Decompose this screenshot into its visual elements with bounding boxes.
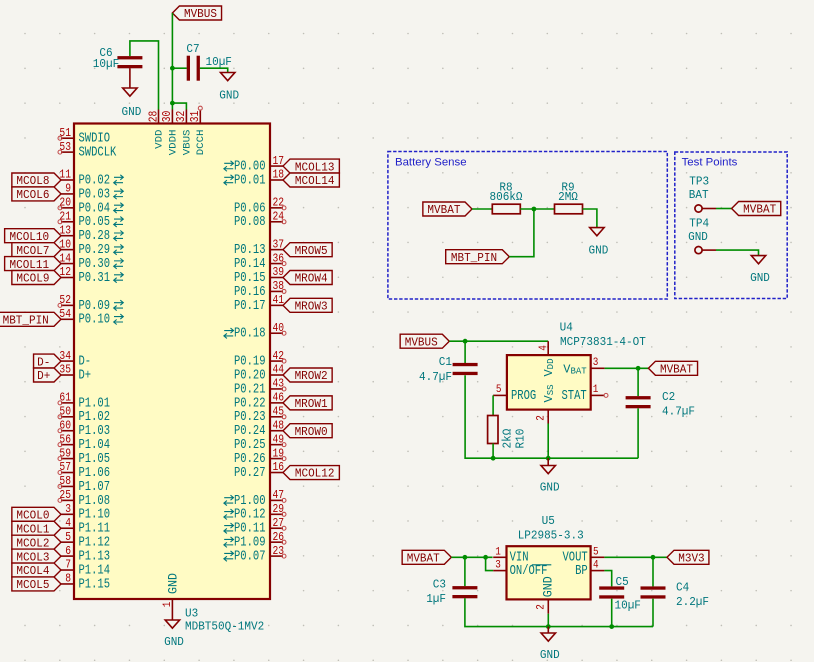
wire VOUT to M3V3 [604, 556, 667, 558]
svg-text:MVBAT: MVBAT [427, 203, 460, 217]
global label MROW0 [283, 424, 332, 439]
svg-text:57: 57 [59, 461, 71, 474]
C5 value 10uF [615, 599, 641, 613]
wire MBT_PIN to divider [509, 209, 534, 257]
junction ON/OFF tap [483, 555, 488, 560]
svg-text:MVBAT: MVBAT [660, 363, 693, 377]
pin 16 P0.27 (right) [234, 461, 284, 481]
pin 5 PROG [493, 384, 536, 404]
C6 reference [99, 46, 112, 60]
svg-text:60: 60 [59, 419, 71, 432]
svg-text:61: 61 [59, 392, 71, 405]
svg-text:MROW1: MROW1 [295, 397, 328, 411]
wire junction to C1 [464, 341, 466, 363]
pin 50 P1.02 (left) [58, 406, 110, 426]
global label MCOL1 [12, 521, 61, 536]
global label MVBAT (test point) [732, 202, 781, 217]
wire junction to C2 [637, 368, 639, 396]
svg-text:Test Points: Test Points [682, 157, 738, 169]
svg-text:GND: GND [589, 244, 609, 258]
pin 34 D- (left) [59, 350, 91, 370]
global label D+ [34, 368, 61, 383]
svg-text:P0.16: P0.16 [234, 285, 266, 300]
Test Points title [682, 157, 738, 169]
svg-text:MCOL2: MCOL2 [16, 536, 49, 550]
global label MROW1 [283, 396, 332, 411]
svg-text:21: 21 [59, 210, 71, 223]
pin 10 P0.29 (left) [59, 238, 123, 258]
svg-text:MCOL1: MCOL1 [16, 522, 49, 536]
pin 20 P0.04 (left) [58, 197, 123, 217]
pin 6 P1.13 (left) [61, 545, 110, 565]
global label MCOL14 [283, 173, 339, 188]
svg-text:1µF: 1µF [426, 592, 446, 606]
wire TP3 to MVBAT [716, 208, 732, 210]
junction C5 at rail [609, 624, 614, 629]
TP3 reference [689, 175, 709, 189]
global label MROW5 [283, 243, 332, 258]
test point TP3 pad [695, 205, 716, 212]
svg-text:MCOL6: MCOL6 [16, 188, 49, 202]
svg-text:4.7µF: 4.7µF [419, 370, 452, 384]
svg-text:P1.03: P1.03 [79, 424, 111, 439]
svg-text:MBT_PIN: MBT_PIN [451, 251, 497, 265]
R9 reference [561, 181, 574, 195]
global label D- [34, 354, 61, 369]
svg-text:P0.19: P0.19 [234, 354, 266, 369]
svg-text:VBUS: VBUS [181, 130, 193, 156]
svg-text:MCOL7: MCOL7 [16, 244, 49, 258]
ground stem (U4) [547, 458, 549, 465]
wire Vss to rail [547, 424, 549, 459]
ground stem (U5) [547, 627, 549, 633]
ground right of C7 [219, 73, 239, 103]
svg-text:P1.13: P1.13 [79, 550, 111, 565]
svg-text:2.2µF: 2.2µF [676, 595, 709, 609]
svg-text:TP3: TP3 [689, 175, 709, 189]
R8 reference [499, 181, 512, 195]
global label MCOL11 [5, 257, 61, 272]
wire GND pin to rail [547, 614, 549, 627]
power label MVBUS (top) [172, 6, 221, 21]
svg-text:SWDCLK: SWDCLK [79, 146, 118, 161]
pin 4 P1.11 (left) [61, 517, 110, 537]
global label MVBUS (charger input) [400, 334, 449, 349]
pin 59 P1.05 (left) [58, 447, 110, 467]
junction C2 tap [636, 366, 641, 371]
pin 37 P0.13 (right) [234, 238, 284, 258]
pin 28 VDD (top) [147, 110, 165, 149]
svg-text:GND: GND [540, 648, 560, 662]
svg-text:PROG: PROG [511, 389, 536, 404]
TP3 value BAT [689, 188, 709, 202]
wire C7 to ground [200, 68, 228, 72]
svg-text:P0.03: P0.03 [79, 187, 111, 202]
svg-text:MVBAT: MVBAT [407, 552, 440, 566]
svg-text:P0.14: P0.14 [234, 257, 266, 272]
svg-text:MVBUS: MVBUS [184, 7, 217, 21]
pin 4 BP [575, 560, 604, 579]
svg-text:51: 51 [59, 127, 71, 140]
svg-text:P0.18: P0.18 [234, 327, 266, 342]
svg-text:P0.11: P0.11 [234, 522, 266, 537]
ground (U5) [540, 633, 560, 662]
svg-text:U5: U5 [542, 514, 555, 528]
pin 3 ON/OFF [493, 560, 551, 579]
svg-text:P0.25: P0.25 [234, 438, 266, 453]
svg-text:MROW0: MROW0 [295, 425, 328, 439]
U3 value MDBT50Q-1MV2 [185, 620, 264, 634]
Test Points bounding box [675, 152, 787, 299]
svg-text:P0.20: P0.20 [234, 368, 266, 383]
svg-text:P1.06: P1.06 [79, 466, 111, 481]
svg-text:9: 9 [65, 183, 71, 196]
R9 value 2M [558, 190, 578, 204]
U3 reference designator [185, 607, 198, 621]
no-connect marker DCCH [198, 106, 202, 110]
pin 22 P0.06 (right) [234, 197, 286, 217]
global label MROW3 [283, 298, 332, 313]
capacitor C2 [626, 396, 651, 408]
svg-text:P0.07: P0.07 [234, 550, 266, 565]
no-connect marker STAT [604, 393, 608, 397]
svg-text:30: 30 [161, 111, 174, 123]
global label MCOL3 [12, 549, 61, 564]
svg-text:P1.07: P1.07 [79, 480, 111, 495]
ground (battery sense) [589, 228, 609, 258]
capacitor C6 [117, 56, 142, 68]
svg-text:P0.29: P0.29 [79, 243, 111, 258]
svg-text:GND: GND [750, 271, 770, 285]
pin 46 P0.22 (right) [234, 392, 284, 412]
wire C1 to ground rail [465, 375, 638, 458]
svg-text:MCOL11: MCOL11 [10, 258, 50, 272]
junction divider tap [532, 207, 537, 212]
svg-text:GND: GND [219, 89, 239, 103]
global label MROW2 [283, 368, 332, 383]
R10 reference [514, 429, 528, 449]
global label MVBAT (charger output) [648, 361, 697, 376]
pin 61 P1.01 (left) [58, 392, 110, 412]
svg-text:P0.10: P0.10 [79, 313, 111, 328]
wire C6 to VDD pin [130, 41, 159, 110]
C1 value 4.7uF [419, 370, 452, 384]
TP4 value GND [688, 230, 708, 244]
svg-text:P0.23: P0.23 [234, 410, 266, 425]
svg-text:28: 28 [147, 111, 160, 123]
wire TP4 to ground [716, 250, 759, 256]
svg-text:MVBAT: MVBAT [743, 203, 776, 217]
svg-text:3: 3 [593, 357, 599, 369]
global label MVBAT (regulator input) [402, 550, 451, 565]
svg-text:GND: GND [541, 576, 556, 597]
pin 1 STAT [562, 384, 605, 404]
capacitor C7 [187, 56, 200, 81]
pin 1 VIN [493, 546, 528, 565]
svg-text:MCOL13: MCOL13 [295, 160, 335, 174]
pin 30 VDDH (top) [161, 110, 179, 156]
svg-text:P0.31: P0.31 [79, 271, 111, 286]
junction R10 at rail [491, 456, 496, 461]
svg-text:P0.12: P0.12 [234, 508, 266, 523]
global label MBT_PIN [446, 250, 510, 265]
pin 32 VBUS (top) [175, 110, 193, 156]
global label MCOL2 [12, 535, 61, 550]
svg-text:5: 5 [65, 531, 71, 544]
svg-text:TP4: TP4 [689, 217, 709, 231]
svg-text:DCCH: DCCH [195, 130, 207, 156]
svg-text:P0.28: P0.28 [79, 229, 111, 244]
pin 52 P0.09 (left) [58, 294, 123, 314]
wire R8 to R9 [520, 208, 554, 210]
svg-text:MCOL8: MCOL8 [16, 174, 49, 188]
R10 value 2k [501, 429, 515, 449]
svg-text:P1.09: P1.09 [234, 536, 266, 551]
svg-text:4: 4 [593, 560, 599, 572]
svg-text:10µF: 10µF [615, 599, 641, 613]
svg-text:P0.02: P0.02 [79, 173, 111, 188]
R8 value 806k [490, 190, 523, 204]
svg-text:P1.15: P1.15 [79, 577, 111, 592]
global label MCOL0 [12, 507, 61, 522]
global label MCOL12 [283, 466, 339, 481]
svg-text:SWDIO: SWDIO [79, 132, 111, 147]
wire Vbat to MVBAT [605, 367, 649, 369]
pin 5 VOUT [563, 546, 605, 565]
wire MVBUS to Vdd pin [449, 340, 548, 342]
svg-text:P0.06: P0.06 [234, 201, 266, 216]
svg-text:P0.24: P0.24 [234, 424, 266, 439]
svg-text:1: 1 [162, 601, 174, 607]
wire PROG to R10 [492, 395, 494, 415]
junction C7 tap [170, 66, 175, 71]
svg-text:M3V3: M3V3 [678, 552, 704, 566]
wire MVBAT to VIN [451, 556, 492, 558]
svg-text:P0.01: P0.01 [234, 173, 266, 188]
svg-text:MROW5: MROW5 [295, 244, 328, 258]
svg-text:P1.12: P1.12 [79, 536, 111, 551]
ground (U4) [540, 466, 560, 495]
svg-text:4: 4 [65, 517, 71, 530]
op-amp U5 LP2985 body [507, 546, 591, 599]
svg-text:P0.17: P0.17 [234, 299, 266, 314]
pin 45 P0.23 (right) [234, 406, 286, 426]
svg-text:C7: C7 [186, 42, 199, 56]
svg-text:MCOL3: MCOL3 [16, 550, 49, 564]
wire MVBUS vertical to VDDH [171, 13, 173, 110]
svg-text:P0.04: P0.04 [79, 201, 111, 216]
pin 3 P1.10 (left) [61, 503, 110, 523]
svg-text:C2: C2 [662, 390, 675, 404]
svg-text:P1.02: P1.02 [79, 410, 111, 425]
global label MVBAT (battery sense) [423, 202, 472, 217]
wire C5 to rail [611, 599, 613, 627]
svg-text:P1.05: P1.05 [79, 452, 111, 467]
op-amp U3 MDBT50Q-1MV2 body [74, 124, 270, 600]
pin 57 P1.06 (left) [58, 461, 110, 481]
pin 41 P0.17 (right) [234, 294, 284, 314]
junction C1 tap [463, 339, 468, 344]
svg-text:VDD: VDD [153, 130, 165, 149]
junction GND at rail [546, 624, 551, 629]
U5 reference [542, 514, 555, 528]
svg-text:25: 25 [59, 489, 71, 502]
global label MCOL10 [5, 229, 61, 244]
pin 42 P0.19 (right) [234, 350, 286, 370]
global label MCOL4 [12, 563, 61, 578]
C6 value 10uF [93, 57, 119, 71]
svg-text:BAT: BAT [689, 188, 709, 202]
Battery Sense title [395, 157, 467, 169]
pin 36 P0.14 (right) [234, 252, 286, 272]
C4 value 2.2uF [676, 595, 709, 609]
pin 48 P0.24 (right) [234, 419, 284, 439]
pin 31 DCCH (top) [189, 110, 207, 156]
svg-text:P1.01: P1.01 [79, 396, 111, 411]
svg-text:MCOL12: MCOL12 [295, 467, 335, 481]
svg-text:MBT_PIN: MBT_PIN [3, 313, 49, 327]
svg-text:GND: GND [122, 105, 142, 119]
svg-text:MCOL5: MCOL5 [16, 578, 49, 592]
svg-text:20: 20 [59, 197, 71, 210]
svg-text:MCOL0: MCOL0 [16, 509, 49, 523]
pin 9 P0.03 (left) [61, 183, 123, 203]
pin 17 P0.00 (right) [224, 155, 284, 175]
svg-text:7: 7 [65, 559, 71, 572]
svg-text:MROW2: MROW2 [295, 369, 328, 383]
C7 value 10uF [206, 55, 232, 69]
wire C2 to rail [637, 408, 639, 458]
svg-text:1: 1 [495, 546, 501, 558]
svg-text:P1.10: P1.10 [79, 508, 111, 523]
pin 35 D+ (left) [59, 364, 91, 384]
junction C4 tap [651, 555, 656, 560]
wire R10 to rail [492, 444, 494, 459]
svg-text:P1.14: P1.14 [79, 563, 111, 578]
U5 value LP2985-3.3 [518, 529, 584, 543]
pin 2 GND (U5) [536, 576, 556, 614]
global label MCOL8 [12, 173, 61, 188]
svg-text:5: 5 [593, 546, 599, 558]
svg-text:P0.30: P0.30 [79, 257, 111, 272]
svg-text:MCOL9: MCOL9 [16, 272, 49, 286]
svg-text:10µF: 10µF [206, 55, 232, 69]
svg-text:MDBT50Q-1MV2: MDBT50Q-1MV2 [185, 620, 264, 634]
svg-text:32: 32 [175, 111, 188, 123]
svg-text:4: 4 [538, 345, 550, 351]
svg-text:50: 50 [59, 406, 71, 419]
svg-text:P0.08: P0.08 [234, 215, 266, 230]
pin 58 P1.07 (left) [58, 475, 110, 495]
svg-text:MCOL14: MCOL14 [295, 174, 335, 188]
wire C4 to rail [652, 599, 654, 627]
ground (test point) [750, 256, 770, 285]
svg-text:2kΩ: 2kΩ [501, 429, 515, 449]
resistor R8 [492, 204, 520, 214]
pin 18 P0.01 (right) [224, 169, 284, 189]
junction Vss at rail [546, 456, 551, 461]
svg-text:P1.08: P1.08 [79, 494, 111, 509]
svg-text:GND: GND [540, 481, 560, 495]
Battery Sense bounding box [388, 152, 667, 300]
svg-text:53: 53 [59, 141, 71, 154]
pin 11 P0.02 (left) [59, 169, 123, 189]
global label M3V3 [667, 550, 709, 565]
svg-text:806kΩ: 806kΩ [490, 190, 523, 204]
wire MVBAT to R8 [472, 208, 492, 210]
svg-text:P0.26: P0.26 [234, 452, 266, 467]
pin 51 SWDIO (left) [58, 127, 110, 147]
global label MCOL13 [283, 159, 339, 174]
svg-text:P1.00: P1.00 [234, 494, 266, 509]
U4 value MCP73831-4-OT [560, 335, 646, 349]
svg-text:P1.11: P1.11 [79, 522, 111, 537]
pin 13 P0.28 (left) [59, 224, 123, 244]
pin 44 P0.20 (right) [234, 364, 284, 384]
svg-text:P0.22: P0.22 [234, 396, 266, 411]
wire junction to C4 [652, 557, 654, 586]
global label MCOL6 [12, 187, 61, 202]
svg-text:D+: D+ [37, 369, 50, 383]
pin 27 P0.11 (right) [224, 517, 286, 537]
svg-text:GND: GND [164, 635, 184, 649]
svg-text:P0.15: P0.15 [234, 271, 266, 286]
C6 ground lead [129, 68, 131, 88]
svg-text:P0.00: P0.00 [234, 159, 266, 174]
svg-text:8: 8 [65, 573, 71, 586]
svg-text:U3: U3 [185, 607, 198, 621]
svg-text:GND: GND [688, 230, 708, 244]
pin 5 P1.12 (left) [61, 531, 110, 551]
svg-text:C4: C4 [676, 581, 689, 595]
svg-text:BP: BP [575, 564, 588, 579]
pin 3 Vbat [563, 357, 604, 377]
svg-text:P1.04: P1.04 [79, 438, 111, 453]
pin 7 P1.14 (left) [61, 559, 110, 579]
resistor R9 [555, 204, 583, 214]
pin 2 Vss [536, 384, 556, 423]
C4 reference [676, 581, 689, 595]
global label MCOL5 [12, 577, 61, 592]
ground below C6 [122, 88, 142, 119]
pin 29 P0.12 (right) [224, 503, 286, 523]
svg-text:LP2985-3.3: LP2985-3.3 [518, 529, 584, 543]
pin 4 Vdd [538, 341, 556, 376]
pin 12 P0.31 (left) [59, 266, 123, 286]
pin 19 P0.26 (right) [234, 447, 286, 467]
wire to VBUS pin [172, 103, 186, 109]
svg-text:59: 59 [59, 447, 71, 460]
pin 23 P0.07 (right) [224, 545, 286, 565]
svg-text:MROW3: MROW3 [295, 300, 328, 314]
svg-text:31: 31 [189, 111, 202, 123]
svg-text:Battery Sense: Battery Sense [395, 157, 467, 169]
pin 60 P1.03 (left) [58, 419, 110, 439]
svg-text:VDDH: VDDH [167, 130, 179, 156]
svg-text:GND: GND [166, 573, 181, 594]
wire C3 to rail [465, 598, 653, 626]
svg-text:MROW4: MROW4 [295, 272, 328, 286]
pin 14 P0.30 (left) [59, 252, 123, 272]
junction VBUS tap [170, 101, 175, 106]
svg-text:4.7µF: 4.7µF [662, 405, 695, 419]
svg-text:P0.21: P0.21 [234, 382, 266, 397]
pin 21 P0.05 (left) [58, 210, 123, 230]
svg-text:R10: R10 [514, 429, 528, 449]
pin 56 P1.04 (left) [58, 433, 110, 453]
pin 39 P0.15 (right) [234, 266, 284, 286]
svg-text:P0.05: P0.05 [79, 215, 111, 230]
